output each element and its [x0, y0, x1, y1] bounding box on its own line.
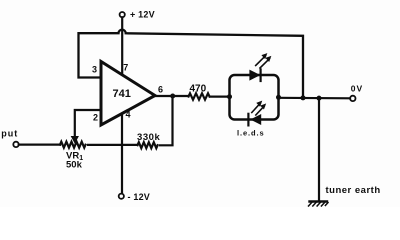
svg-text:330k: 330k	[137, 132, 161, 143]
op-amp U1 741	[101, 62, 155, 126]
node pin6/feedback junction	[170, 94, 175, 99]
node led left junction	[227, 94, 232, 99]
terminal -12V	[119, 194, 124, 199]
svg-text:2: 2	[93, 112, 98, 122]
svg-text:- 12V: - 12V	[128, 192, 151, 202]
wire VR1 to 330k	[88, 144, 137, 146]
led D1 arrows	[256, 56, 266, 66]
led D2 arrows	[252, 103, 260, 112]
terminal input	[13, 142, 18, 147]
wire input to VR1	[19, 144, 60, 146]
led D1 top	[250, 71, 259, 80]
led D2 bottom	[252, 115, 261, 124]
wire +12V to pin 7	[121, 17, 123, 75]
terminal 0V	[350, 96, 355, 101]
svg-text:l.e.d.s: l.e.d.s	[237, 128, 265, 137]
wire pin 6 output	[155, 95, 189, 97]
resistor 330k	[138, 142, 158, 148]
wire 470 to led block	[210, 95, 230, 97]
svg-text:470: 470	[190, 84, 207, 95]
svg-text:0V: 0V	[351, 84, 363, 94]
svg-text:3: 3	[92, 65, 97, 75]
led block frame	[230, 75, 279, 120]
svg-text:6: 6	[158, 85, 163, 95]
svg-text:+ 12V: + 12V	[130, 10, 155, 20]
resistor R 470	[189, 93, 210, 99]
svg-text:4: 4	[126, 109, 131, 119]
wire earth drop	[318, 98, 320, 201]
svg-text:input: input	[0, 128, 18, 138]
node led right junction	[276, 95, 281, 100]
node earth junction	[317, 96, 322, 101]
terminal +12V	[120, 12, 125, 17]
wire top rail pin3 to 0V node	[79, 30, 304, 98]
svg-text:741: 741	[113, 88, 131, 100]
node top-rail junction	[301, 95, 306, 100]
svg-text:7: 7	[123, 63, 128, 73]
wire pin 4 to -12V	[121, 113, 123, 194]
ground tuner earth	[310, 200, 328, 202]
svg-text:tuner earth: tuner earth	[326, 185, 381, 196]
wire led block to 0V	[279, 97, 351, 100]
resistor VR1	[60, 142, 86, 148]
svg-text:50k: 50k	[66, 160, 83, 171]
wire 330k up to pin 6 node	[160, 96, 173, 145]
wiper arrow VR1	[72, 137, 79, 143]
wire pin 2 stub	[75, 110, 101, 137]
